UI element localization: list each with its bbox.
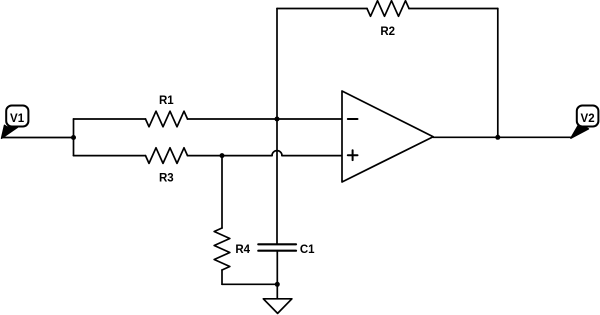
resistor R4 xyxy=(214,228,250,270)
wire upper branch to R1 xyxy=(74,118,146,120)
node inverting input junction xyxy=(275,117,280,122)
net flag V1 xyxy=(2,106,29,139)
wire feedback right vertical xyxy=(497,9,499,138)
wire feedback left vertical (to C1 top) xyxy=(276,9,278,245)
wire R3 to R4 tap xyxy=(188,155,223,157)
svg-text:V2: V2 xyxy=(581,113,595,125)
svg-text:V1: V1 xyxy=(10,113,25,125)
wire R4 upper lead xyxy=(221,156,223,228)
wire op-amp output xyxy=(433,136,571,138)
wire top feedback left segment xyxy=(277,8,367,10)
wire R4 tap to hop xyxy=(222,155,272,157)
wire V1 to input junction xyxy=(2,137,74,139)
wire R1 to op-amp inverting input xyxy=(188,118,343,120)
wire C1 bottom lead to ground xyxy=(276,251,278,299)
wire top feedback right segment xyxy=(409,8,498,10)
wire hop to op-amp non-inverting input xyxy=(282,155,342,157)
node ground junction xyxy=(275,282,280,287)
svg-text:R1: R1 xyxy=(159,95,174,107)
capacitor C1 xyxy=(258,244,315,256)
node R4 tap junction xyxy=(220,153,225,158)
node output junction xyxy=(495,135,500,140)
svg-text:R4: R4 xyxy=(235,244,250,256)
ground xyxy=(263,299,292,314)
net flag V2 xyxy=(571,106,599,139)
wire bottom horizontal R4 to ground node xyxy=(222,283,277,285)
svg-text:R3: R3 xyxy=(159,173,174,185)
wire input split vertical xyxy=(73,119,75,156)
wire hop over feedback line xyxy=(272,151,282,156)
resistor R3 xyxy=(146,148,188,185)
resistor R1 xyxy=(146,95,188,127)
svg-text:C1: C1 xyxy=(300,244,315,256)
op-amp U1 xyxy=(342,91,433,182)
svg-text:R2: R2 xyxy=(380,26,395,38)
resistor R2 xyxy=(367,1,409,38)
node input junction xyxy=(71,135,76,140)
wire R4 lower lead xyxy=(221,270,223,284)
wire lower branch to R3 xyxy=(74,155,146,157)
